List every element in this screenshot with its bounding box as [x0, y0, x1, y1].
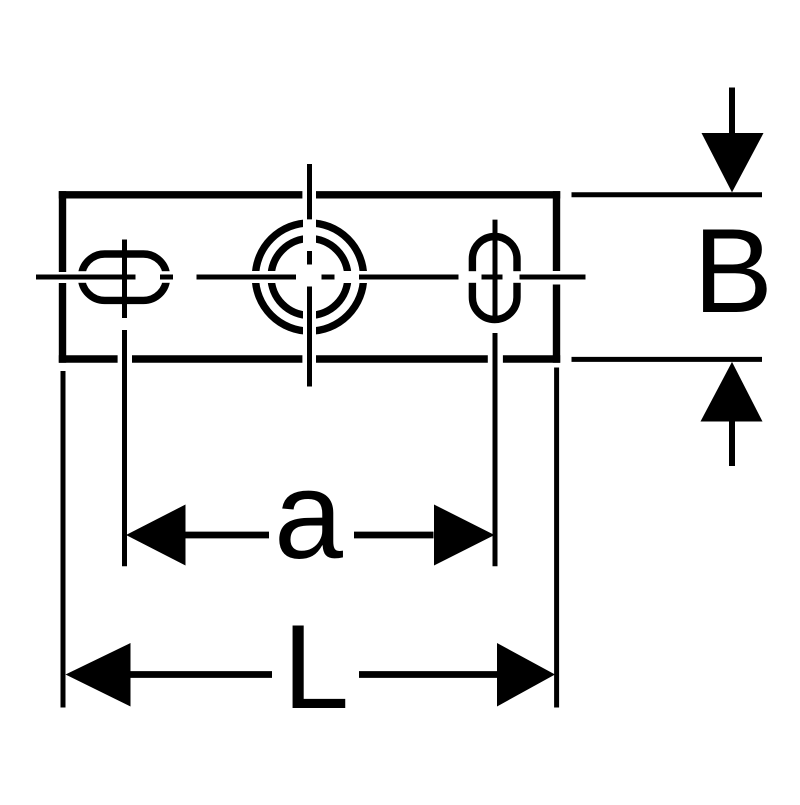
svg-text:a: a [274, 447, 343, 585]
svg-text:L: L [283, 601, 349, 734]
svg-text:B: B [693, 205, 773, 338]
